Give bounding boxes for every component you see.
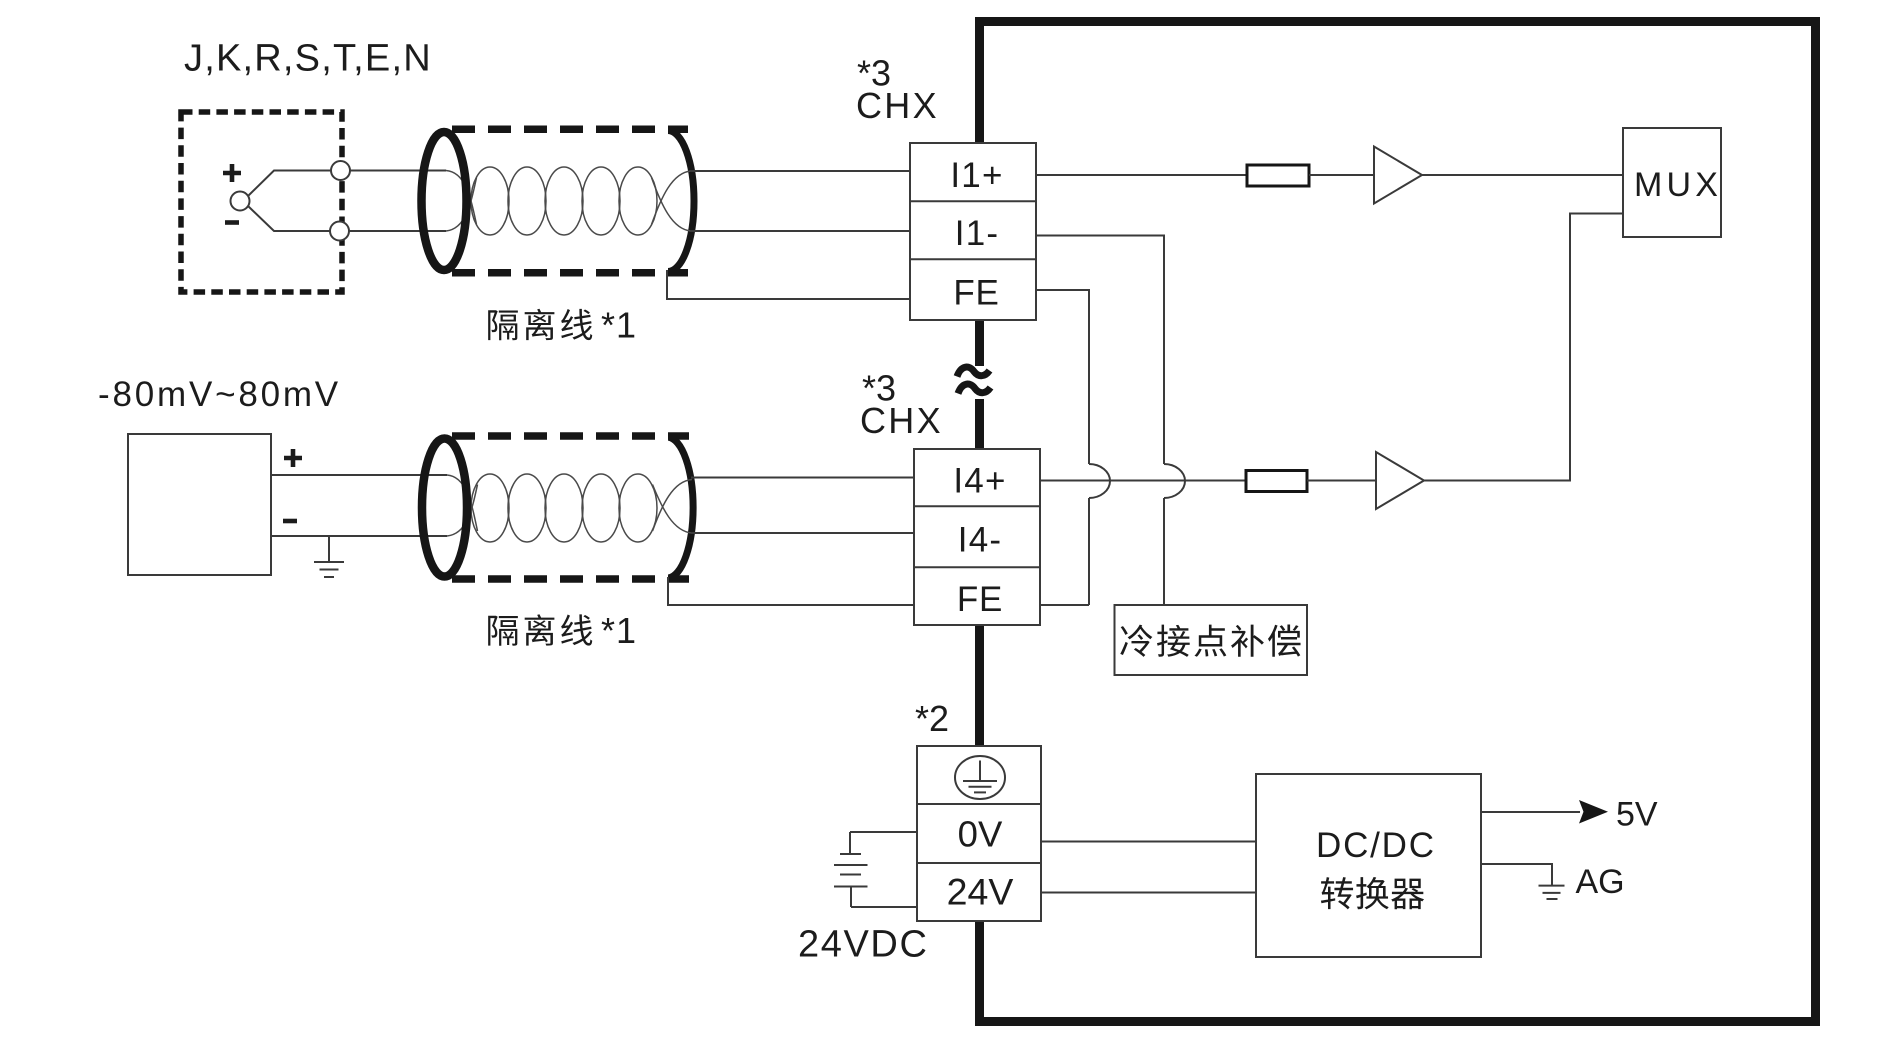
shielded cable 1 (isolation wire) — [422, 129, 695, 272]
svg-text:J,K,R,S,T,E,N: J,K,R,S,T,E,N — [184, 38, 432, 80]
protective earth terminal symbol — [955, 756, 1005, 799]
signal ground symbol on mV- wire — [314, 536, 344, 577]
24VDC battery symbol — [834, 832, 917, 907]
amplifier A4 (buffer) — [1376, 452, 1424, 509]
wire mV- to cable — [271, 535, 447, 537]
input resistor R1 — [1247, 165, 1309, 186]
svg-text:CHX: CHX — [856, 85, 939, 126]
thermocouple junction wires — [248, 171, 332, 197]
mV source polarity + — [284, 449, 302, 467]
mV source polarity - — [283, 519, 297, 524]
svg-text:24VDC: 24VDC — [798, 924, 929, 966]
label isolation wire *1 (channel 1) — [488, 305, 637, 346]
TC1 terminal circle + — [331, 161, 350, 180]
wire 24V to DC/DC — [1041, 892, 1256, 894]
wire I4+ to input resistor R4 — [1040, 480, 1246, 482]
wire mV+ to cable — [271, 474, 447, 476]
wire TC1+ to cable — [350, 170, 446, 172]
wire FE(ch4) to FE net junction — [1040, 604, 1089, 606]
wire 0V to DC/DC — [1041, 841, 1256, 843]
TC1 terminal circle - — [330, 222, 349, 241]
wire R4 to amplifier A4 — [1307, 480, 1376, 482]
wire A4 output up to MUX input 2 — [1424, 214, 1623, 481]
svg-text:0V: 0V — [958, 813, 1003, 854]
5V arrow head — [1579, 800, 1608, 824]
svg-text:I1-: I1- — [955, 214, 999, 253]
terminal block CH4 (pins I4+ I4- FE) — [914, 449, 1040, 625]
svg-text:CHX: CHX — [860, 400, 943, 441]
svg-text:FE: FE — [957, 580, 1003, 619]
cold junction compensation label — [1120, 624, 1300, 656]
svg-text:-80mV~80mV: -80mV~80mV — [98, 375, 341, 414]
shield drain wire cable1 to FE — [667, 270, 910, 299]
MUX box — [1623, 128, 1721, 237]
wire TC1- to cable — [349, 230, 446, 232]
svg-text:DC/DC: DC/DC — [1316, 826, 1436, 865]
thermocouple TC1 dashed enclosure box — [181, 112, 342, 292]
svg-text:MUX: MUX — [1634, 166, 1722, 204]
cold junction compensation box — [1115, 605, 1308, 675]
hop of I1- net over I4+ wire — [1164, 464, 1185, 498]
label isolation wire *1 (channel 4) — [488, 610, 637, 651]
thermocouple junction bead — [231, 192, 250, 211]
svg-text:I4-: I4- — [958, 521, 1002, 560]
svg-text:24V: 24V — [947, 870, 1014, 912]
svg-text:FE: FE — [953, 274, 999, 313]
shield drain wire cable4 to FE — [668, 577, 914, 605]
TC1 polarity label - — [225, 220, 239, 225]
hop of FE net over I4+ wire — [1089, 464, 1110, 498]
TC1 polarity label + — [223, 164, 241, 182]
mV source box — [128, 434, 271, 575]
svg-text:I1+: I1+ — [950, 156, 1003, 195]
input resistor R4 — [1246, 471, 1307, 492]
svg-text:5V: 5V — [1616, 796, 1658, 834]
power terminal block (PE / 0V / 24V) — [917, 746, 1041, 921]
svg-text:AG: AG — [1576, 863, 1625, 901]
wire I1- right and down to cold junction compensation — [1036, 236, 1164, 465]
frame break squiggle — [957, 366, 996, 399]
wire cable1 to I1- — [690, 230, 910, 232]
svg-text:*2: *2 — [915, 698, 949, 739]
wire I1+ to input resistor R1 — [1036, 174, 1247, 176]
shielded cable 4 (isolation wire) — [422, 436, 693, 579]
wire DC/DC to AG — [1481, 864, 1552, 886]
module enclosure frame (thick border) — [975, 17, 1820, 1026]
wire R1 to amplifier A1 — [1309, 174, 1374, 176]
wire cable1 to I1+ — [690, 170, 910, 172]
DC/DC converter box — [1256, 774, 1481, 957]
svg-text:*1: *1 — [601, 305, 637, 346]
wire cable4 to I4+ — [691, 477, 914, 479]
wire A1 output to MUX — [1422, 174, 1623, 176]
amplifier A1 (buffer) — [1374, 147, 1422, 204]
wire DC/DC to 5V output — [1481, 811, 1580, 813]
wire cable4 to I4- — [691, 532, 914, 534]
wire FE(ch1) right, down to FE(ch4) net — [1036, 290, 1089, 464]
AG earth ground symbol — [1539, 886, 1565, 899]
svg-text:I4+: I4+ — [953, 462, 1006, 501]
terminal block CH1 (pins I1+ I1- FE) — [910, 143, 1036, 320]
svg-text:*1: *1 — [601, 610, 637, 651]
